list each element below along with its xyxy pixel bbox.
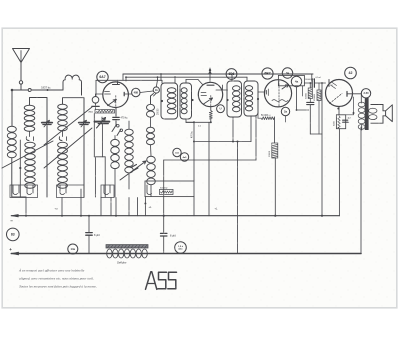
label circle 4a xyxy=(291,76,301,86)
tube V3 cathode wavy xyxy=(272,100,288,102)
resistor R5 box xyxy=(272,143,278,158)
wire rail B drop V1 xyxy=(125,77,127,81)
wire antenna lead-in xyxy=(12,89,28,91)
tube V2 grids xyxy=(201,92,206,94)
switch contact L3 xyxy=(62,131,64,137)
node dot T2b xyxy=(257,98,259,100)
tuning gang line a xyxy=(2,141,53,168)
tube V1 plate xyxy=(113,84,120,86)
wire drop c xyxy=(80,189,82,216)
wire grid V2 from T1 xyxy=(186,79,198,81)
wire C5 to V4 xyxy=(314,82,325,84)
padder arrow xyxy=(97,118,106,129)
wire CV3 down a xyxy=(101,124,103,157)
coil L7 osc plate xyxy=(147,104,155,110)
node dot ant wire xyxy=(47,89,49,91)
wire grid stub xyxy=(95,94,97,97)
wire drop h xyxy=(137,198,139,216)
capacitor C9 xyxy=(163,216,165,233)
tube V2 cathode arrow xyxy=(204,98,213,104)
wire railB drop 1b xyxy=(157,77,159,80)
coil L2 lower xyxy=(25,142,35,147)
wire 2a down xyxy=(285,116,287,122)
wire rail B drop IF1 xyxy=(174,77,176,83)
wire L7 top xyxy=(150,96,152,104)
wire drop j xyxy=(193,197,195,216)
tube V1 cathode arrow xyxy=(108,99,117,105)
wire drop f xyxy=(115,198,117,216)
resistor R9 box xyxy=(160,189,174,194)
wire T2 bottoms xyxy=(232,117,234,142)
transformer T3 core xyxy=(365,98,369,130)
wire AVC line xyxy=(186,121,211,123)
label circle 6A7 xyxy=(97,71,108,82)
resistor R8 box xyxy=(336,115,345,129)
label circle 2a xyxy=(281,107,289,115)
variable capacitor CV2 xyxy=(79,122,89,124)
capacitor C2 padder xyxy=(113,116,119,118)
wire rail A drop V1 xyxy=(122,74,124,80)
transformer T3 secondary xyxy=(369,108,377,113)
tube V3 grid bars xyxy=(265,91,267,95)
wire CV1 bottom xyxy=(46,126,48,197)
wire L7-L8 xyxy=(150,118,152,128)
capacitor C3 trimmer plates xyxy=(131,165,137,168)
switch hooks row xyxy=(13,185,18,195)
tube V1 grid bar right xyxy=(123,92,125,96)
coil L5 osc grid xyxy=(111,139,120,146)
resistor R3 box xyxy=(278,75,304,85)
wire 488 to 1b xyxy=(140,91,153,93)
wire R8 down xyxy=(338,129,340,216)
wire 1b down xyxy=(154,93,157,96)
label circle 14a xyxy=(68,244,78,254)
wire CV2 top xyxy=(81,89,83,96)
wire drop d xyxy=(100,197,102,216)
resistor R7 box xyxy=(317,90,321,101)
IF transformer T2 primary xyxy=(227,81,242,117)
variable capacitor CV1 xyxy=(42,122,52,124)
label circle 4a5 xyxy=(180,153,188,161)
wire rail B end drop xyxy=(246,77,248,81)
wire L5 bottom xyxy=(114,169,116,197)
coil L6 osc tank xyxy=(125,129,134,135)
variable capacitor CV4 trimmer arrow xyxy=(120,161,146,180)
label circle U xyxy=(217,105,225,113)
wire plate V3 xyxy=(304,82,312,84)
choke L10 xyxy=(107,249,112,258)
resistor R6 box xyxy=(308,88,312,99)
tube V3 diode arrow xyxy=(282,85,289,90)
wire rail A xyxy=(123,73,313,75)
coil L3 lower xyxy=(58,142,68,147)
wire CV2 bottom xyxy=(83,126,85,197)
wire under grid network xyxy=(95,108,97,110)
wire V2 cathode to bus xyxy=(208,122,210,215)
wire T1 sec bottom xyxy=(185,119,187,122)
tube V1 dashed xyxy=(115,96,117,107)
wire drop b xyxy=(61,198,63,216)
label circle 3a xyxy=(282,68,292,78)
coil L3 upper xyxy=(58,104,68,109)
wire L4 right down xyxy=(81,89,83,96)
capacitor C7 xyxy=(343,119,348,121)
model label A55 xyxy=(146,272,157,290)
variable capacitor CV3 xyxy=(95,121,110,123)
wire V3 grid xyxy=(258,91,265,93)
tube V2 dashed xyxy=(210,96,212,107)
wire R7 ends xyxy=(318,83,320,90)
wire drop e xyxy=(110,198,112,216)
tube V4 plate bar xyxy=(346,92,348,97)
capacitor C6 xyxy=(307,101,314,103)
wire L6 ends xyxy=(128,121,130,129)
label circle voltage xyxy=(175,242,187,254)
label circle 3a5 xyxy=(173,148,181,156)
wire L2 top loop xyxy=(30,98,48,122)
label circle 2-50 xyxy=(361,89,370,98)
tube V1 6A7 envelope xyxy=(103,82,129,108)
wire R6 top xyxy=(309,83,311,88)
wire T3 prim xyxy=(360,94,362,103)
node dot T2a xyxy=(226,99,228,101)
wire rail A end drop xyxy=(311,74,313,81)
wire V2 cathode xyxy=(210,107,212,111)
capacitor C8 xyxy=(88,216,90,233)
wire plate V1 to IF1 xyxy=(96,79,162,81)
capacitor C1 grid circle xyxy=(92,97,99,104)
wire drop a xyxy=(25,197,27,216)
label circle 6B7 xyxy=(262,68,273,79)
wire R6 bottom xyxy=(309,99,311,103)
switch contact L2 xyxy=(29,132,31,137)
tuning gang line b xyxy=(44,128,92,168)
wire V1 cathode down xyxy=(115,108,117,117)
tube V2 grid cap xyxy=(209,68,211,82)
wire R4 down xyxy=(274,118,276,143)
wire L3 top loop xyxy=(63,98,85,122)
label circle 42 xyxy=(345,67,357,79)
wire drop i xyxy=(144,197,146,216)
wire L1 bottom xyxy=(11,158,13,197)
tuning gang line c xyxy=(44,107,92,145)
wire 4a down xyxy=(296,87,298,110)
tube V4 dashed diag xyxy=(330,94,343,104)
coil L9 bottom xyxy=(147,156,156,163)
wire box right down xyxy=(302,86,304,96)
coil L1 antenna primary xyxy=(7,126,16,132)
wire rail A drop IF2 xyxy=(231,74,233,81)
tube V2 plate xyxy=(207,84,214,86)
wire drop g xyxy=(128,198,130,216)
wire IF2 to bus xyxy=(237,142,239,254)
capacitor C5 coupling xyxy=(311,79,313,87)
wire V4 plate xyxy=(347,93,361,95)
label circle 6D6 xyxy=(226,69,237,80)
wire T1 sec top xyxy=(185,80,187,84)
resistor R2 cathode xyxy=(209,111,212,120)
label circle 1b xyxy=(153,87,159,93)
tube V4 grid xyxy=(328,80,330,87)
wire speaker down xyxy=(360,127,362,254)
wire tap L2 xyxy=(19,140,21,197)
tube V1 grids xyxy=(105,91,110,93)
node dot T1a xyxy=(161,100,163,102)
label circle 488 xyxy=(132,88,140,96)
box osc bottom xyxy=(145,181,194,197)
coil L8 below xyxy=(147,127,155,133)
tube V2 plate wire xyxy=(216,89,228,91)
wire R4 left xyxy=(257,112,259,118)
tube V3 6B7 envelope xyxy=(264,80,291,107)
antenna xyxy=(13,49,30,63)
IF transformer T2 secondary xyxy=(244,81,258,116)
wire CV3 down b xyxy=(93,114,95,157)
coil L4 coupling xyxy=(63,75,82,88)
wire 163 down xyxy=(163,160,165,216)
wire h under IF2 xyxy=(194,141,251,143)
resistor R1 grid leak box xyxy=(95,110,115,113)
wire IF1 left top xyxy=(161,80,163,83)
choke core xyxy=(106,245,148,248)
wire L8-L9 xyxy=(150,145,153,156)
wire V4 cathode xyxy=(338,107,340,115)
wire y160 avc xyxy=(164,159,256,161)
antenna terminal dot xyxy=(11,89,14,92)
IF transformer T1 primary xyxy=(161,83,178,119)
wire ant down-left xyxy=(11,90,13,126)
speaker frame xyxy=(371,105,386,124)
bus minus xyxy=(11,215,339,217)
wire rail A drop IF1 xyxy=(160,74,162,80)
tube V4 42 envelope xyxy=(326,80,353,107)
switch boxes xyxy=(10,185,38,198)
bus plus xyxy=(11,253,361,255)
band switch S1 xyxy=(117,125,120,128)
label circle 83 xyxy=(7,228,20,241)
transformer T3 primary xyxy=(358,102,365,107)
wire rail B xyxy=(126,76,247,78)
speaker cone xyxy=(386,105,393,122)
node dot T1b xyxy=(191,99,193,101)
wire right col to bus xyxy=(321,83,323,216)
wire V4 screen xyxy=(353,97,355,115)
tube V3 dashed xyxy=(278,81,280,107)
resistor R4 det load xyxy=(261,117,275,120)
capacitor C1 plate xyxy=(92,105,99,107)
coil L2 upper xyxy=(24,105,35,110)
tube V2 6D6 envelope xyxy=(198,82,222,106)
IF transformer T1 secondary xyxy=(180,83,192,119)
